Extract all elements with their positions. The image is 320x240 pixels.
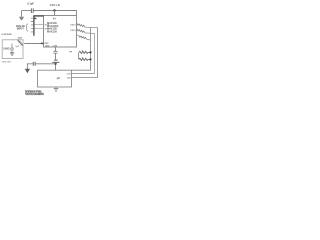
resistor R2 [77,23,85,27]
pin 1 tick right [34,18,36,20]
wire V+ pin stub [54,11,56,16]
svg-text:* FOR LOW VOLT GAIN CONNECTION: * FOR LOW VOLT GAIN CONNECTION [25,93,44,96]
capacitor C1 [31,8,33,13]
capacitor C5 polarized [52,60,59,62]
svg-text:IN HI: IN HI [45,25,50,27]
resistor R4 [79,35,87,39]
wire R4 left lead [77,35,79,37]
node dot R6 bus [89,58,91,60]
svg-text:1kΩ: 1kΩ [18,37,22,39]
wire IN HI [35,24,44,26]
wire COM rail left [35,63,55,65]
svg-text:GND: GND [45,45,50,47]
wire connector to U1 top edge [33,15,44,17]
wire right bus [72,28,91,71]
svg-text:CLK: CLK [67,74,72,76]
wire U1 right-bottom pin down [78,52,80,59]
resistor R5 [79,51,90,53]
wire U2 pin CLK to bus [72,73,95,75]
capacitor C4 [33,62,35,66]
connector J1 pin ticks [31,18,34,32]
svg-text:μC: μC [57,76,61,80]
resistor R1 [17,40,23,45]
arrow on R1 wire at U1 pin [41,42,44,44]
svg-text:1.5V x N: 1.5V x N [50,3,60,7]
ground G1 [19,17,24,19]
svg-text:MAX139: MAX139 [47,31,57,34]
wire U2 ground stub [55,87,57,88]
brace for analog input [26,24,28,31]
resistor R3 [77,29,85,33]
node dot R5 bus [89,51,91,53]
node junction dot [53,9,55,11]
wire C4 to ground [27,64,33,69]
wire R2 to bus [85,26,98,28]
wire stub to ground [21,11,23,17]
resistor R6 [79,58,90,60]
microcontroller U2 body [38,70,72,87]
wire R4 to bus [87,38,91,41]
capacitor C3 [53,51,57,53]
wire C3 to C5 [55,53,57,59]
wire R3 to bus [85,33,95,74]
svg-text:AC NETWORK: AC NETWORK [2,33,12,36]
svg-text:INPUT: INPUT [17,27,25,30]
connector J1 body bar [33,16,35,36]
network box [2,40,23,59]
wire top rail right segment [34,11,77,16]
svg-text:DIO: DIO [67,78,71,80]
wire COM stub from U1 bottom [55,47,57,51]
svg-text:V+: V+ [53,16,57,20]
node junction dot COM [54,63,56,65]
wire C5 to node [55,63,57,71]
svg-text:0.1µF: 0.1µF [27,2,34,6]
svg-text:*SEE TEXT: *SEE TEXT [2,61,13,63]
svg-text:IN LO: IN LO [45,29,51,31]
wire IN LO [35,28,44,30]
wire U2 pin DIO to bus [72,28,98,78]
svg-text:OSC2: OSC2 [70,30,76,32]
ground G3 earth triangle [25,69,30,73]
svg-text:COM: COM [52,45,57,47]
ground G4 [54,89,59,92]
svg-text:10MΩ: 10MΩ [3,48,10,51]
wire top rail left segment [22,10,32,12]
capacitor C2 [10,44,14,53]
background [0,0,100,100]
IC U1 body MAX130 ADC [44,16,77,48]
svg-text:OSC1: OSC1 [70,24,76,26]
ground G2 [10,53,14,56]
wire R1 to U1 [24,43,43,45]
